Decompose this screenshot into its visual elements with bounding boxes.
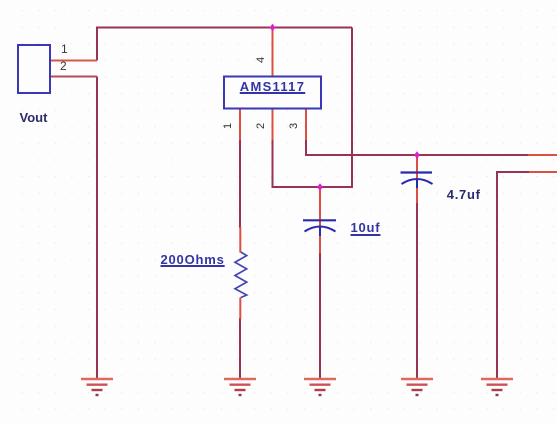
connector pin number 1	[61, 43, 68, 55]
wire vertical from top rail down to connector pin 1	[96, 27, 98, 61]
capacitor 10uf top pin	[319, 186, 321, 227]
wire right L-shaped from edge down to ground	[497, 172, 529, 379]
pin number 2 (rotated)	[255, 117, 267, 129]
wire from 10uf capacitor down to ground	[319, 252, 321, 379]
wire pin 3 vertical segment	[305, 139, 307, 155]
wire horizontal joining pin 2 net to right branch	[273, 186, 354, 188]
wire from 4.7uf capacitor down to ground	[416, 202, 418, 379]
junction dot at 4.7uf tap	[414, 151, 420, 159]
label AMS1117	[224, 80, 321, 93]
connector Vout pin 1 stub	[50, 60, 97, 62]
wire input rail to right edge	[305, 154, 528, 156]
capacitor 4.7uf bottom pin	[416, 188, 418, 203]
connector Vout pin 2 stub	[50, 76, 97, 78]
value label 10uf	[351, 221, 381, 234]
capacitor C 10uf plates	[303, 220, 336, 236]
wire top rail from connector to C-in branch	[97, 27, 352, 29]
pin number 3 (rotated)	[288, 117, 300, 129]
wire from AMS1117 pin 1 down to resistor	[239, 139, 241, 228]
net label Vout	[20, 111, 48, 124]
pin number 1 (rotated)	[222, 117, 234, 129]
ground symbol left	[81, 379, 113, 395]
value label 200Ohms	[161, 253, 225, 266]
AMS1117 pin 4 stub	[272, 29, 274, 77]
capacitor C 4.7uf plates	[401, 173, 433, 189]
AMS1117 pin 2 stub	[272, 108, 274, 140]
junction dot on top rail	[270, 24, 276, 32]
pin stub entering from right edge lower	[529, 171, 557, 173]
pin number 4 (rotated)	[255, 51, 267, 63]
value label 4.7uf	[447, 188, 481, 201]
capacitor 10uf bottom pin	[319, 236, 321, 253]
resistor R bottom pin	[239, 298, 241, 320]
connector pin number 2	[60, 60, 67, 72]
connector Vout body	[18, 45, 50, 93]
ground symbol under 4.7uf	[401, 379, 433, 395]
wire from resistor down to ground	[239, 318, 241, 379]
pin stub entering from right edge on input rail	[528, 154, 557, 156]
regulator U AMS1117 body	[224, 77, 321, 109]
ground symbol under resistor	[224, 379, 256, 395]
wire pin 2 vertical lower segment	[272, 139, 274, 188]
capacitor 4.7uf top pin	[416, 154, 418, 179]
ground symbol under 10uf	[304, 379, 336, 395]
ground symbol right	[481, 379, 513, 395]
AMS1117 pin 3 stub	[305, 108, 307, 140]
junction dot at 10uf tap	[317, 183, 323, 191]
AMS1117 pin 1 stub	[239, 108, 241, 140]
wire long vertical from connector pin 2 down to ground	[96, 77, 98, 380]
resistor R top pin	[239, 227, 241, 253]
wire vertical right branch from top rail down	[351, 28, 353, 188]
resistor R1 zigzag body	[235, 252, 247, 298]
